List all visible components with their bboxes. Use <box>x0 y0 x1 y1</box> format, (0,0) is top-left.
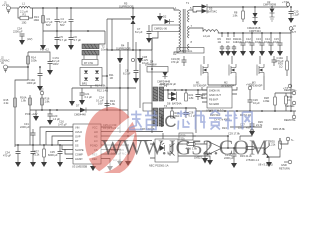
svg-text:BAT54C: BAT54C <box>208 10 218 14</box>
svg-text:CMPT8099: CMPT8099 <box>263 3 277 7</box>
IC U3 controller <box>72 124 101 169</box>
svg-text:(HV): (HV) <box>27 37 32 41</box>
svg-text:470 µF: 470 µF <box>171 60 180 64</box>
diode D5 dual <box>202 4 218 14</box>
wire feedback bus y90 <box>164 89 207 91</box>
inductor L1 <box>19 2 30 14</box>
svg-text:WWW.JG52.COM: WWW.JG52.COM <box>102 136 268 160</box>
terminal REMOTE- <box>285 101 296 108</box>
wire second bus <box>43 30 105 32</box>
resistor R29 <box>278 56 288 76</box>
wire y127 <box>230 126 262 128</box>
svg-text:1Ω: 1Ω <box>279 65 282 69</box>
svg-text:8.2 µF: 8.2 µF <box>135 30 143 34</box>
svg-text:R1: R1 <box>23 13 27 17</box>
svg-text:4.99k: 4.99k <box>263 99 270 103</box>
capacitor C10 <box>288 6 300 23</box>
transformer T1 <box>175 1 193 56</box>
svg-text:OUT: OUT <box>291 30 297 34</box>
ground x120 <box>117 161 123 166</box>
box feedback small <box>143 103 152 111</box>
wire mid horizontal y110 <box>30 109 128 111</box>
snubber R9 <box>218 33 226 56</box>
snubber R11A <box>231 33 238 56</box>
capacitor C31B lower <box>30 145 36 167</box>
svg-text:BAT54A: BAT54A <box>172 102 182 106</box>
svg-text:10µF: 10µF <box>236 40 242 44</box>
svg-text:1MΩ: 1MΩ <box>34 18 40 22</box>
svg-text:REMOTE-: REMOTE- <box>284 118 296 122</box>
terminal J6 return <box>279 160 292 170</box>
svg-text:CMR2U-06: CMR2U-06 <box>154 27 168 31</box>
connector J1 <box>2 1 11 14</box>
diode D2 <box>163 15 174 25</box>
svg-text:D2: D2 <box>163 15 167 19</box>
capacitor C13A <box>272 56 285 66</box>
svg-text:SHDN IN: SHDN IN <box>209 89 220 93</box>
resistor R37 <box>33 145 47 167</box>
resistor R28 <box>263 93 276 111</box>
svg-text:50V: 50V <box>46 23 51 27</box>
ground U3 pad2 <box>106 159 113 172</box>
svg-text:21.7k: 21.7k <box>256 123 263 127</box>
capacitor C28 <box>184 108 197 118</box>
transformer T3 <box>153 84 168 101</box>
svg-text:10µF: 10µF <box>273 40 279 44</box>
svg-text:SLOPE: SLOPE <box>75 148 84 152</box>
TVS R5 <box>131 8 136 50</box>
svg-text:UVLO: UVLO <box>75 130 82 134</box>
svg-text:10µF: 10µF <box>264 40 270 44</box>
zener CMPZ4448 <box>157 72 171 87</box>
svg-text:2200 µF: 2200 µF <box>20 125 30 129</box>
svg-text:+7.5V: +7.5V <box>282 0 289 4</box>
wire J1 to L1 <box>11 7 20 9</box>
svg-text:10 µF: 10 µF <box>253 101 260 105</box>
capacitor C7 <box>135 25 152 43</box>
wire primary-side rail x152 <box>151 38 153 133</box>
capacitor C6 <box>68 31 81 50</box>
svg-text:10µF: 10µF <box>245 40 251 44</box>
svg-text:GND: GND <box>281 163 287 167</box>
svg-text:OVP: OVP <box>75 135 81 139</box>
capacitor C12 <box>245 33 255 56</box>
node top bus junctions <box>42 7 44 9</box>
capacitor C20 <box>47 109 60 125</box>
svg-text:41.2k: 41.2k <box>33 153 40 157</box>
svg-text:IN: IN <box>1 61 4 65</box>
capacitor C29B <box>224 148 237 168</box>
capacitor C35 <box>48 145 63 167</box>
capacitor C13 <box>255 33 265 56</box>
svg-text:FB BYP: FB BYP <box>209 98 218 102</box>
svg-text:R17 1.8k: R17 1.8k <box>95 84 106 88</box>
svg-text:0.1: 0.1 <box>287 98 291 102</box>
svg-text:100k: 100k <box>31 59 37 63</box>
resistor R33 <box>240 147 262 162</box>
svg-text:CMPT404: CMPT404 <box>249 29 261 33</box>
resistor R30A box <box>179 133 228 140</box>
terminal +7.5V sense <box>283 84 292 90</box>
svg-text:U3 LM5035B: U3 LM5035B <box>72 165 87 169</box>
transformer T2 common mode choke <box>82 44 108 59</box>
svg-text:L2 µH: L2 µH <box>203 34 210 38</box>
svg-text:R39 15.8k: R39 15.8k <box>273 127 286 131</box>
capacitor C14 <box>264 33 274 56</box>
resistor R15 <box>4 98 17 107</box>
svg-text:COMP: COMP <box>75 153 83 157</box>
svg-text:0.1 µF: 0.1 µF <box>85 95 93 99</box>
svg-text:1000 µF: 1000 µF <box>27 81 37 85</box>
svg-text:100V: 100V <box>53 62 59 66</box>
ground x72 <box>69 88 75 106</box>
ground top-middle <box>157 13 163 21</box>
terminal +12 mid <box>131 58 134 61</box>
svg-text:BR1: BR1 <box>82 82 88 86</box>
capacitor C34 <box>3 145 21 167</box>
svg-text:1.8k: 1.8k <box>21 99 27 103</box>
bridge rectifier BR1 <box>80 68 102 86</box>
resistor R16 with terminal <box>39 88 50 111</box>
svg-text:1Ω: 1Ω <box>218 40 221 44</box>
wire left rail <box>15 80 28 147</box>
svg-text:+12: +12 <box>39 88 44 92</box>
capacitor C24 <box>96 96 110 111</box>
capacitor C4 <box>59 8 74 31</box>
svg-text:1.8k: 1.8k <box>45 100 51 104</box>
svg-text:4.3k: 4.3k <box>4 101 10 105</box>
label T1 part number box <box>177 48 204 54</box>
wire top bus <box>30 7 174 9</box>
ground U3 pads <box>90 164 96 171</box>
IC U4 <box>202 87 237 113</box>
wire U3 left feeds up <box>40 127 68 145</box>
wire T1 secondary top to D5 <box>189 7 202 13</box>
wire y108 <box>164 107 196 109</box>
svg-text:4.7 µF: 4.7 µF <box>60 38 68 42</box>
svg-text:8.2 µF: 8.2 µF <box>123 72 131 76</box>
wire top bus into T1 pin1 <box>174 8 179 10</box>
svg-text:D7: D7 <box>76 104 80 108</box>
svg-text:R12 1.4Ω: R12 1.4Ω <box>97 89 108 93</box>
ground mid-left <box>33 110 39 121</box>
svg-text:470 µF: 470 µF <box>3 154 12 158</box>
capacitor C19A <box>27 66 44 91</box>
svg-text:10µF: 10µF <box>255 40 261 44</box>
svg-text:10mH: 10mH <box>101 48 108 52</box>
wire POR down <box>29 110 31 145</box>
svg-text:RETURN: RETURN <box>279 167 290 171</box>
watermark chinese text <box>129 111 252 130</box>
svg-text:CMRD02AL: CMRD02AL <box>179 49 193 53</box>
wire vertical x107 <box>106 19 108 110</box>
svg-text:RT: RT <box>75 139 79 143</box>
svg-text:0.47 µF: 0.47 µF <box>58 123 67 127</box>
resistor R35 <box>269 138 281 153</box>
snubber R10 <box>225 33 231 56</box>
wire y50 bus <box>107 49 152 51</box>
inductor L2 <box>189 28 218 38</box>
wire x196 vertical <box>195 108 197 133</box>
resistor R8 <box>233 7 245 22</box>
wire right rail <box>290 33 292 111</box>
svg-text:SENSE-: SENSE- <box>285 104 295 108</box>
wire U3 right nets <box>106 127 196 154</box>
resistor R30B <box>285 93 293 111</box>
capacitor C5 <box>54 31 67 50</box>
terminal +7.5V aux <box>282 0 290 7</box>
resistor R13 <box>34 8 45 31</box>
wire J2 to R14 <box>8 66 29 68</box>
U3 left pin stubs <box>68 127 73 159</box>
mosfet M1 <box>193 56 208 88</box>
wire lower bus y111 <box>196 110 296 112</box>
terminal SENSE+ <box>275 88 297 95</box>
svg-text:R7 47Ω: R7 47Ω <box>84 61 93 65</box>
svg-text:1.21k: 1.21k <box>269 143 276 147</box>
svg-text:1N4448W: 1N4448W <box>145 63 157 67</box>
wire opto emitter <box>183 156 210 160</box>
svg-text:2200 µF: 2200 µF <box>13 30 23 34</box>
resistor R23 <box>171 108 180 118</box>
wire x140 drop <box>139 50 141 108</box>
terminal S- right <box>280 137 295 144</box>
wire vertical x112 <box>111 19 113 50</box>
capacitor C27 <box>238 122 255 136</box>
capacitor C2A <box>13 27 32 46</box>
ground x128 <box>125 161 131 166</box>
svg-text:1Ω: 1Ω <box>226 40 229 44</box>
capacitor C23 <box>196 89 206 100</box>
resistor R14 <box>27 52 38 80</box>
wire x120 x128 ground drops <box>120 145 128 161</box>
resistor R16A vertical <box>20 95 31 110</box>
diode D8 dual <box>167 90 182 106</box>
svg-text:VIN: VIN <box>75 126 79 130</box>
op-amp U6 <box>194 135 246 163</box>
svg-text:SUPRESOR: SUPRESOR <box>119 5 134 9</box>
resistor R1 <box>18 8 33 25</box>
mosfet M2 <box>221 56 236 88</box>
wire D5 out to U2 <box>207 6 285 8</box>
svg-text:PG +12: PG +12 <box>40 48 49 52</box>
wire slope comp stubs <box>62 145 68 159</box>
svg-text:+VCC: +VCC <box>246 83 253 87</box>
wire mosfet link <box>208 85 264 90</box>
svg-text:CMD4448: CMD4448 <box>74 113 86 117</box>
terminal sense lower <box>284 111 296 122</box>
svg-text:AGND: AGND <box>75 157 83 161</box>
svg-text:GND OUT: GND OUT <box>209 93 221 97</box>
connector J2 <box>0 56 10 73</box>
transformer T4 <box>153 104 168 126</box>
ground opto area <box>207 160 213 165</box>
svg-text:10Ω: 10Ω <box>22 21 27 25</box>
optocoupler U5 <box>149 133 183 168</box>
svg-text:NC ERR: NC ERR <box>209 102 219 106</box>
resistor R31 <box>183 143 200 151</box>
wire q2 bottom <box>268 161 270 162</box>
U3 right pin stubs <box>101 127 106 159</box>
svg-text:C2B +0.22 µF: C2B +0.22 µF <box>160 82 177 86</box>
capacitor C31 <box>20 122 68 145</box>
wire T1 pin2 <box>174 52 179 55</box>
svg-text:1.8k: 1.8k <box>110 102 116 106</box>
wire output bus y33 <box>218 32 291 34</box>
capacitor C11 <box>236 33 246 56</box>
wire r35 bottom link <box>269 153 280 157</box>
svg-text:D8: D8 <box>167 102 171 106</box>
svg-text:R24: R24 <box>222 126 227 130</box>
svg-text:2200: 2200 <box>238 126 244 130</box>
diode D4 box <box>145 60 168 73</box>
svg-text:NEC PS2561-1A: NEC PS2561-1A <box>149 164 169 168</box>
wire bus2 to choke <box>99 31 105 44</box>
svg-text:IC: IC <box>160 112 177 131</box>
watermark red logo <box>80 107 140 175</box>
wire bridge out <box>102 75 107 77</box>
capacitor C17A <box>28 48 60 76</box>
resistor R21 <box>185 89 194 101</box>
wire U3 pin SS to rail bus <box>15 144 68 146</box>
svg-text:1R: 1R <box>110 76 113 80</box>
wire y19 branch <box>107 18 131 20</box>
box CMR2U-06 <box>152 25 180 32</box>
capacitor C15 <box>273 33 283 56</box>
svg-text:2.2µF: 2.2µF <box>293 13 300 17</box>
capacitor C3 <box>45 8 60 31</box>
svg-text:4.7 µF: 4.7 µF <box>74 38 82 42</box>
wire x152 top hook <box>152 32 158 51</box>
terminal VCC top <box>246 83 253 101</box>
svg-text:REMOTE+: REMOTE+ <box>284 88 297 92</box>
zener CMHZ4618 <box>247 7 261 33</box>
svg-text:1.8k: 1.8k <box>189 96 195 100</box>
svg-text:SS: SS <box>75 144 79 148</box>
transistor U2 <box>263 0 277 21</box>
capacitor C19R <box>171 56 187 66</box>
svg-text:S−: S− <box>291 138 295 142</box>
transistor Q2 <box>258 140 273 167</box>
capacitor C26 <box>248 98 261 111</box>
wire y88 <box>72 87 136 89</box>
terminal +5VS <box>240 126 254 141</box>
svg-text:1.8k: 1.8k <box>233 14 239 18</box>
svg-text:50V: 50V <box>60 23 65 27</box>
ground left drop <box>40 31 46 50</box>
wire long verticals middle <box>119 50 121 133</box>
diode D7 inline <box>74 104 86 117</box>
svg-text:8200 µF: 8200 µF <box>48 153 58 157</box>
svg-text:16V: 16V <box>98 102 103 106</box>
svg-text:Si7336ADP: Si7336ADP <box>193 84 207 88</box>
capacitor C21 <box>79 88 92 105</box>
resistor R7 <box>82 60 98 66</box>
terminal J3 +V OUT <box>289 24 296 34</box>
mosfet M3 <box>249 56 264 88</box>
